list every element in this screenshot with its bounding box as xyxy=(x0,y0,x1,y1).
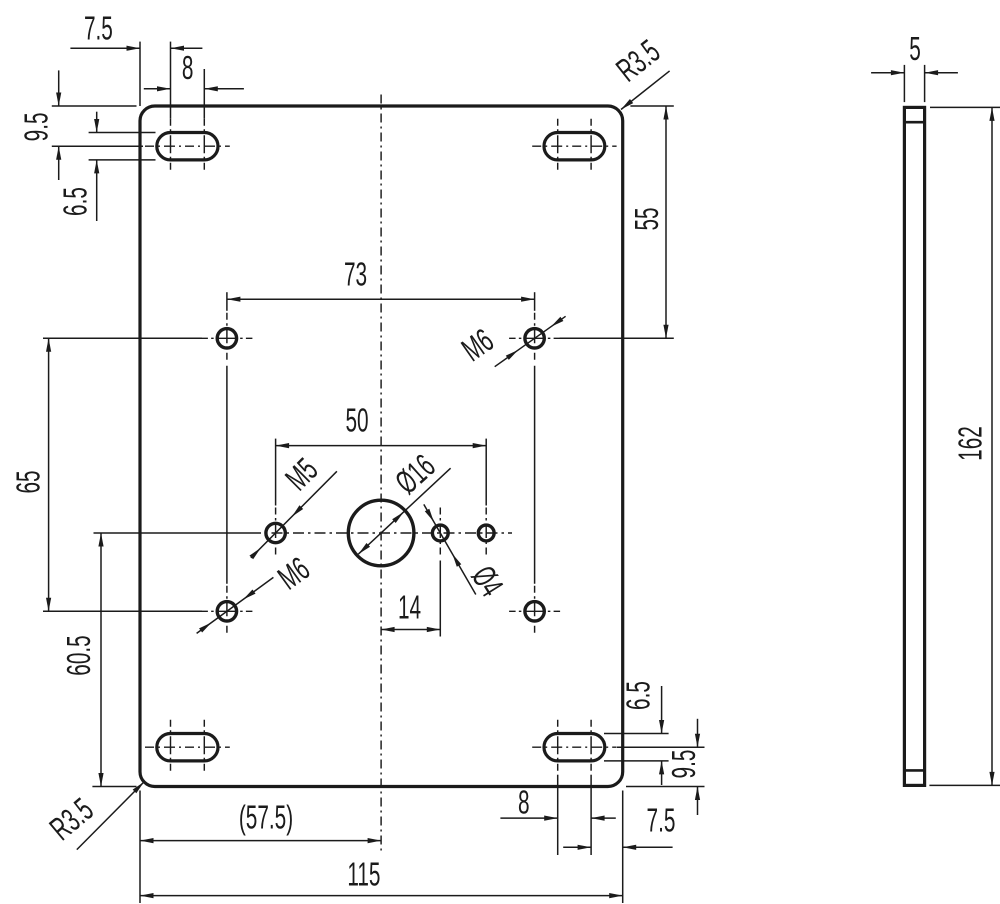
callout Ø4 leader line xyxy=(424,504,476,594)
dim 65 dimension line xyxy=(48,338,50,611)
svg-text:7.5: 7.5 xyxy=(84,9,113,46)
slot top-right centerline vertical 1 xyxy=(557,119,559,174)
bore Ø16 centre xyxy=(348,500,414,566)
dim 55 dimension line xyxy=(665,106,667,338)
dim (57.5) extension left-edge xyxy=(139,791,141,904)
dim 5 extension lines xyxy=(904,65,924,102)
dim 162 extension top xyxy=(930,106,1000,108)
dim 55 extension top-edge xyxy=(630,105,673,107)
dim 73 extension line right xyxy=(534,292,536,584)
svg-text:65: 65 xyxy=(10,470,47,493)
dim 60.5 extension top xyxy=(94,532,251,534)
slot top-right centerline vertical 2 xyxy=(590,119,592,174)
dim 162 dimension line xyxy=(991,107,993,785)
svg-text:55: 55 xyxy=(628,207,665,230)
callout Ø16 label xyxy=(388,447,442,501)
leader R3.5 top-right label xyxy=(609,32,666,88)
dim 5 arrows xyxy=(891,70,938,75)
callout M6 mid leader line xyxy=(197,577,274,633)
dim 8 top-left dimension line xyxy=(144,88,244,90)
dim 60.5 dimension line xyxy=(100,533,102,787)
hole M6 top-right crosshair h xyxy=(509,337,560,339)
dim 8 bottom-right extension slot-right xyxy=(590,775,592,855)
dim 60.5 arrows xyxy=(98,533,103,787)
dim 65 extension bottom xyxy=(43,610,202,612)
dim 9.5 bottom-right dimension line xyxy=(697,719,699,815)
dim (57.5) dimension line xyxy=(140,840,381,842)
dim 9.5 top-left extension slot-centre xyxy=(52,145,143,147)
callout M5 leader line xyxy=(251,471,337,558)
slot bottom-right centerline horizontal xyxy=(532,746,616,748)
callout M6 top-right arrows xyxy=(506,317,564,360)
hole M6 bottom-left crosshair v xyxy=(226,586,228,637)
svg-text:8: 8 xyxy=(182,49,194,86)
dim 7.5 bottom-right label xyxy=(647,802,676,839)
callout M5 label xyxy=(278,451,325,498)
dim 55 extension hole-row xyxy=(560,337,674,339)
svg-text:6.5: 6.5 xyxy=(620,681,657,710)
leader R3.5 bottom-left label xyxy=(43,791,100,848)
leader R3.5 top-right line xyxy=(621,71,670,110)
svg-text:60.5: 60.5 xyxy=(60,635,97,675)
dim 7.5/8 top-left extension line slot-left xyxy=(170,42,172,119)
hole M5 crosshair xyxy=(275,508,277,559)
dim 6.5 top-left extension slot-top xyxy=(89,132,156,134)
dim 14 arrows xyxy=(381,627,440,632)
dim 65 label xyxy=(10,470,47,493)
dim 50 dimension line xyxy=(276,445,487,447)
dim 6.5 bottom-right dimension line xyxy=(661,686,663,785)
slot hole top-right xyxy=(544,133,605,160)
dim 60.5 label xyxy=(60,635,97,675)
dim 115 extension right-edge xyxy=(622,791,624,904)
hole bottom-right of pattern xyxy=(525,602,544,621)
hole mid-right (50 pattern) xyxy=(478,525,494,541)
hole Ø4 xyxy=(432,525,448,541)
dim 8 top-left extension line slot-right xyxy=(203,69,205,119)
svg-text:14: 14 xyxy=(398,589,421,626)
slot bottom-right centerline vertical 1 xyxy=(557,720,559,775)
dim 9.5 bottom-right extension slot-centre xyxy=(617,746,705,748)
hole bottom-right crosshair h xyxy=(509,610,560,612)
dim 60.5 extension bottom xyxy=(92,786,136,788)
leader R3.5 bottom-left arrow xyxy=(133,780,146,793)
svg-text:115: 115 xyxy=(347,856,380,893)
dim 115 label xyxy=(347,856,380,893)
dim 6.5 bottom-right extension slot-top xyxy=(604,733,669,735)
slot bottom-left centerline horizontal xyxy=(145,746,230,748)
dim 7.5 top-left label xyxy=(84,9,113,46)
svg-text:8: 8 xyxy=(518,783,530,820)
dim 73 label xyxy=(344,256,367,293)
dim 50 arrows xyxy=(276,443,487,448)
middle hole row centre line xyxy=(250,532,512,534)
dim 50 label xyxy=(345,402,368,439)
dim 6.5 top-left dimension line xyxy=(96,112,98,221)
dim 14 extension line xyxy=(439,561,441,637)
dim 162 extension bottom xyxy=(929,784,1000,786)
slot hole bottom-right xyxy=(544,734,605,761)
svg-text:73: 73 xyxy=(344,256,367,293)
callout M6 mid label xyxy=(271,550,316,597)
dim 6.5 bottom-right label xyxy=(620,681,657,710)
dim 9.5 bottom-right arrows xyxy=(695,734,700,800)
plate outline (front view 115x162, R3.5 corners) xyxy=(140,106,623,787)
slot top-left centerline vertical 2 xyxy=(203,119,205,174)
hole M6 bottom-left xyxy=(217,602,236,621)
dim 9.5 top-left arrows xyxy=(56,93,61,160)
leader R3.5 top-right arrow xyxy=(619,99,633,111)
dim 8 bottom-right label xyxy=(518,783,530,820)
svg-text:7.5: 7.5 xyxy=(647,802,676,839)
leader R3.5 bottom-left line xyxy=(77,782,144,850)
dim 8 bottom-right arrows xyxy=(544,816,604,821)
dim 9.5 top-left dimension line xyxy=(58,70,60,180)
dim (57.5) arrows xyxy=(140,838,381,843)
dim 7.5 top-left arrows xyxy=(127,46,185,51)
dim 55 arrows xyxy=(663,106,668,338)
svg-text:6.5: 6.5 xyxy=(56,187,93,216)
dim 73 arrows xyxy=(227,297,535,302)
dim 115 dimension line xyxy=(140,895,623,897)
svg-text:5: 5 xyxy=(909,30,921,67)
dim 73 dimension line xyxy=(227,298,535,300)
dim 8 bottom-right dimension line xyxy=(500,817,615,819)
hole Ø4 crosshair xyxy=(439,508,441,559)
side view bottom tangent line xyxy=(904,769,924,772)
dim 73 extension line left xyxy=(226,292,228,584)
dim 65 extension top xyxy=(43,337,202,339)
dim 50 extension left xyxy=(275,439,277,506)
callout M5 arrows xyxy=(249,505,303,559)
callout Ø4 label xyxy=(465,559,511,602)
slot hole top-left (6.5 x 8 obround) xyxy=(157,133,218,160)
dim 7.5 top-left dimension line xyxy=(70,47,202,49)
dim 6.5 bottom-right extension slot-bottom xyxy=(604,760,669,762)
dim 9.5 bottom-right label xyxy=(665,750,702,779)
dim 55 label xyxy=(628,207,665,230)
dim 9.5 top-left label xyxy=(18,112,55,141)
hole top-left crosshair v xyxy=(226,313,228,364)
slot bottom-right centerline vertical 2 xyxy=(590,720,592,775)
hole top-left of 73x65 pattern xyxy=(217,329,236,348)
hole M6 top-right xyxy=(525,329,544,348)
slot top-left centerline horizontal xyxy=(145,145,230,147)
hole bottom-right crosshair v xyxy=(534,586,536,637)
dim 6.5 bottom-right arrows xyxy=(659,720,664,774)
slot bottom-left centerline vertical 1 xyxy=(170,720,172,775)
dim 6.5 top-left arrows xyxy=(94,119,99,173)
dim (57.5) label xyxy=(239,799,293,836)
hole M5 mid-left xyxy=(266,523,285,542)
hole M6 top-right crosshair v xyxy=(534,313,536,364)
svg-text:9.5: 9.5 xyxy=(18,112,55,141)
dim 7.5 top-left extension line (plate edge) xyxy=(139,42,141,106)
dim 14 label xyxy=(398,589,421,626)
side view top tangent line xyxy=(904,121,924,124)
slot hole bottom-left xyxy=(157,734,218,761)
dim 162 label xyxy=(952,426,989,461)
svg-text:(57.5): (57.5) xyxy=(239,799,293,836)
dim 7.5 bottom-right arrows xyxy=(578,845,637,850)
callout M6 top-right label xyxy=(455,321,500,368)
svg-text:162: 162 xyxy=(952,426,989,461)
callout Ø16 diameter line xyxy=(358,468,450,554)
slot bottom-left centerline vertical 2 xyxy=(203,720,205,775)
svg-text:9.5: 9.5 xyxy=(665,750,702,779)
dim 9.5 bottom-right extension bottom-edge xyxy=(626,786,705,788)
hole top-left crosshair h xyxy=(201,337,252,339)
dim 8 bottom-right extension slot-left xyxy=(557,775,559,855)
dim 5 label xyxy=(909,30,921,67)
hole M6 bottom-left crosshair h xyxy=(201,610,252,612)
hole mid-right crosshair xyxy=(485,508,487,559)
dim 5 dimension line xyxy=(871,72,958,74)
callout M6 top-right leader line xyxy=(495,316,566,366)
callout M6 mid arrows xyxy=(199,589,255,632)
svg-text:50: 50 xyxy=(345,402,368,439)
dim 115 arrows xyxy=(140,893,623,898)
dim 50 extension right xyxy=(485,439,487,506)
dim 162 arrows xyxy=(989,107,994,785)
callout Ø4 arrows xyxy=(425,509,462,567)
dim 7.5 bottom-right dimension line xyxy=(563,846,672,848)
callout Ø16 arrows xyxy=(357,510,406,556)
dim 6.5 top-left extension slot-bottom xyxy=(89,159,156,161)
side view outline (5mm thickness) xyxy=(904,107,924,785)
dim 8 top-left arrows xyxy=(157,86,218,91)
slot top-left centerline vertical 1 xyxy=(170,119,172,174)
dim 14 dimension line xyxy=(381,629,440,631)
slot top-right centerline horizontal xyxy=(532,145,616,147)
dim 9.5 top-left extension top-edge xyxy=(52,105,137,107)
plate vertical centre line xyxy=(380,95,382,852)
dim 8 top-left label xyxy=(182,49,194,86)
dim 65 arrows xyxy=(46,338,51,611)
dim 6.5 top-left label xyxy=(56,187,93,216)
